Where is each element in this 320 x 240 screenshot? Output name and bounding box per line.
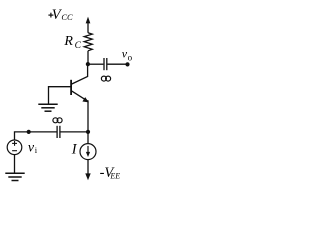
current source I internal arrow [86, 146, 90, 157]
transistor Q1 base bar [70, 80, 72, 95]
ground (vi source) [5, 173, 24, 180]
resistor RC [84, 33, 92, 51]
transistor Q1 emitter lead [72, 91, 88, 101]
-VEE supply label [100, 165, 121, 181]
wire: output capacitor to vo terminal [107, 63, 127, 65]
svg-text:CC: CC [61, 12, 73, 22]
wire: base to ground corner [49, 87, 72, 104]
wire: input capacitor to junction [61, 131, 89, 133]
node: emitter / input junction dot [86, 130, 90, 134]
vo label [122, 47, 133, 63]
wire: vi source up and right to input capacitor [15, 132, 57, 140]
capacitor Cc1 (input coupling, value ∞) [57, 126, 60, 138]
svg-text:C: C [75, 41, 82, 51]
resistor RC value label [63, 34, 81, 51]
wire: current source to -VEE arrow [87, 160, 89, 175]
capacitor Cc2 (output coupling, value ∞) [104, 58, 107, 70]
ground (base) [38, 104, 57, 111]
wire: node to output coupling capacitor [88, 63, 103, 65]
node: input terminal dot [27, 130, 31, 134]
wire: VCC arrow to resistor RC top [87, 23, 89, 33]
svg-text:o: o [128, 52, 133, 62]
svg-text:EE: EE [109, 171, 120, 180]
∞ value label (output capacitor) [101, 76, 110, 81]
svg-text:R: R [63, 34, 73, 49]
-VEE supply arrow [85, 173, 90, 180]
node: collector / output junction dot [86, 62, 90, 66]
terminal: vo output dot [125, 62, 129, 66]
vi label [28, 140, 38, 155]
transistor Q1 emitter arrowhead [82, 97, 88, 102]
wire: resistor RC bottom to collector node [87, 51, 89, 64]
wire: vi source to ground [14, 155, 16, 173]
transistor Q1 collector lead [72, 64, 88, 84]
VCC supply arrow [86, 17, 91, 24]
current source I (circle) [80, 144, 96, 160]
source vi (signal source circle) [7, 140, 22, 155]
wire: emitter down to input junction [87, 100, 89, 132]
∞ value label (input capacitor) [53, 118, 62, 123]
+VCC supply label [48, 7, 73, 23]
wire: junction to current source [87, 132, 89, 144]
